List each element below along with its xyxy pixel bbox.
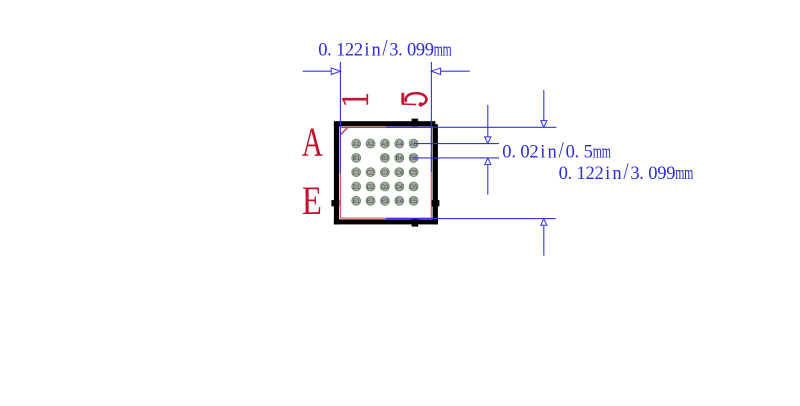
- svg-text:0: 0: [566, 143, 575, 163]
- height dimension line lower segment: [543, 225, 545, 256]
- svg-text:A3: A3: [381, 141, 389, 148]
- dimension text ball pitch 0.02in/0.5mm: 0.02in/0.5mm: [502, 136, 611, 163]
- ball D4: [395, 182, 404, 191]
- svg-text:A4: A4: [396, 141, 404, 148]
- package edge right: [433, 124, 438, 224]
- height extension line bottom (y=218.6): [386, 218, 556, 220]
- svg-text:2: 2: [354, 41, 363, 61]
- package body outline: [334, 121, 438, 224]
- svg-text:D5: D5: [410, 184, 418, 191]
- ball A5: [409, 139, 418, 148]
- ball E2: [366, 196, 375, 205]
- svg-text:A: A: [302, 118, 323, 164]
- svg-text:/: /: [623, 158, 628, 185]
- package edge tab bottom: [412, 219, 419, 227]
- top dimension arrowhead left (points right): [331, 68, 340, 75]
- dimension extension line right (x=431.4): [430, 62, 432, 172]
- ball B1: [352, 154, 361, 163]
- svg-text:m: m: [684, 164, 693, 184]
- svg-text:D3: D3: [381, 184, 389, 191]
- row label A: [302, 118, 323, 164]
- svg-text:n: n: [547, 143, 556, 163]
- svg-text:2: 2: [529, 143, 538, 163]
- pitch dimension line lower segment: [487, 164, 489, 194]
- ball A4: [395, 139, 404, 148]
- svg-text:0: 0: [559, 164, 568, 184]
- ball B5: [409, 154, 418, 163]
- pin 1 corner chamfer mark: [340, 128, 347, 135]
- dimension text top width 0.122in/3.099mm: 0.122in/3.099mm: [318, 35, 452, 62]
- ball E3: [381, 196, 390, 205]
- svg-text:.: .: [575, 143, 580, 163]
- height dimension arrowhead down: [541, 121, 547, 128]
- ball E5: [409, 196, 418, 205]
- package edge top: [334, 121, 436, 126]
- svg-text:i: i: [605, 164, 610, 184]
- svg-text:E2: E2: [367, 198, 375, 205]
- ball C3: [381, 168, 390, 177]
- height dimension arrowhead up: [541, 219, 547, 226]
- ball D5: [409, 182, 418, 191]
- svg-text:0: 0: [648, 164, 657, 184]
- svg-text:D4: D4: [396, 184, 404, 191]
- svg-text:E1: E1: [353, 198, 361, 205]
- ball D1: [352, 182, 361, 191]
- land pattern courtyard (red rect): [340, 128, 431, 219]
- pitch dimension arrowhead down: [485, 137, 491, 144]
- svg-text:E: E: [302, 178, 322, 223]
- ball E4: [395, 196, 404, 205]
- svg-text:.: .: [639, 164, 644, 184]
- svg-text:m: m: [593, 142, 602, 162]
- height extension line top (y=127.3): [386, 126, 556, 128]
- ball grid A1..E5 (B2 absent): [352, 139, 418, 205]
- svg-text:C2: C2: [367, 170, 375, 177]
- svg-text:.: .: [398, 41, 403, 61]
- svg-text:9: 9: [666, 164, 675, 184]
- svg-text:/: /: [382, 35, 387, 62]
- top dimension arrow line left: [303, 70, 332, 72]
- svg-text:1: 1: [336, 41, 345, 61]
- svg-text:E5: E5: [410, 198, 418, 205]
- column label 5 (rotated): [401, 93, 426, 107]
- svg-text:E4: E4: [396, 198, 404, 205]
- ball D3: [381, 182, 390, 191]
- svg-text:/: /: [559, 136, 564, 163]
- ball A2: [366, 139, 375, 148]
- svg-text:A1: A1: [353, 141, 361, 148]
- svg-text:2: 2: [594, 164, 603, 184]
- svg-text:D1: D1: [353, 184, 361, 191]
- svg-text:n: n: [371, 41, 380, 61]
- package edge left: [334, 122, 339, 224]
- ball A3: [381, 139, 390, 148]
- svg-text:1: 1: [577, 164, 586, 184]
- svg-text:2: 2: [345, 41, 354, 61]
- ball C4: [395, 168, 404, 177]
- svg-text:9: 9: [416, 41, 425, 61]
- ball C1: [352, 168, 361, 177]
- svg-text:A5: A5: [410, 141, 418, 148]
- top dimension arrowhead right (points left): [431, 68, 440, 75]
- svg-text:9: 9: [425, 41, 434, 61]
- svg-text:m: m: [434, 40, 443, 60]
- package edge tab left: [331, 200, 339, 206]
- ball B4: [395, 154, 404, 163]
- column label 1 (rotated): [342, 94, 367, 105]
- svg-text:0: 0: [502, 143, 511, 163]
- package edge tab right: [431, 200, 439, 206]
- svg-text:B3: B3: [381, 155, 389, 162]
- svg-text:.: .: [327, 41, 332, 61]
- svg-text:C4: C4: [396, 170, 404, 177]
- svg-text:3: 3: [389, 41, 398, 61]
- svg-text:B5: B5: [410, 155, 418, 162]
- svg-text:C3: C3: [381, 170, 389, 177]
- svg-text:5: 5: [584, 143, 593, 163]
- svg-text:m: m: [602, 142, 611, 162]
- svg-text:E3: E3: [381, 198, 389, 205]
- dimension extension line left (x=340.4): [339, 62, 341, 173]
- pitch dimension arrowhead up: [485, 158, 491, 165]
- pitch dimension line upper segment: [487, 105, 489, 137]
- svg-text:0: 0: [318, 41, 327, 61]
- height dimension line upper segment: [543, 90, 545, 121]
- dimension text height 0.122in/3.099mm: 0.122in/3.099mm: [559, 158, 694, 185]
- svg-text:m: m: [675, 164, 684, 184]
- ball B3: [381, 154, 390, 163]
- ball C5: [409, 168, 418, 177]
- svg-text:D2: D2: [367, 184, 375, 191]
- svg-text:9: 9: [657, 164, 666, 184]
- package edge bottom: [334, 219, 438, 224]
- svg-text:0: 0: [407, 41, 416, 61]
- row label E: [302, 178, 322, 223]
- pitch leader line from ball B5: [414, 157, 499, 159]
- svg-text:m: m: [443, 40, 452, 60]
- svg-text:C1: C1: [353, 170, 361, 177]
- ball D2: [366, 182, 375, 191]
- ball C2: [366, 168, 375, 177]
- svg-text:2: 2: [585, 164, 594, 184]
- svg-text:B4: B4: [396, 155, 404, 162]
- svg-text:0: 0: [520, 143, 529, 163]
- package edge tab top: [412, 119, 419, 127]
- svg-text:n: n: [612, 164, 621, 184]
- svg-text:i: i: [540, 143, 545, 163]
- svg-text:C5: C5: [410, 170, 418, 177]
- svg-text:.: .: [511, 143, 516, 163]
- ball E1: [352, 196, 361, 205]
- svg-text:.: .: [568, 164, 573, 184]
- top dimension arrow line right: [441, 70, 470, 72]
- pitch leader line from ball A5: [414, 143, 499, 145]
- svg-text:3: 3: [630, 164, 639, 184]
- svg-text:i: i: [364, 41, 369, 61]
- svg-text:B1: B1: [353, 155, 361, 162]
- svg-text:A2: A2: [367, 141, 375, 148]
- ball A1: [352, 139, 361, 148]
